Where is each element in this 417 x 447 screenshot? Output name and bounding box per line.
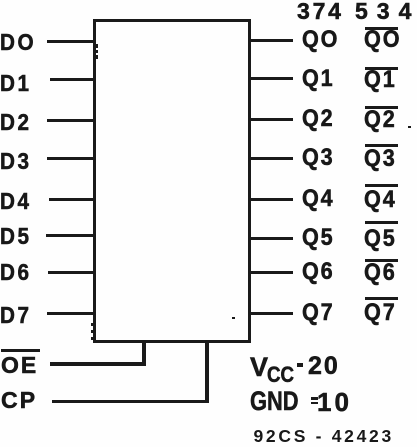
wire Q6 output xyxy=(250,271,293,274)
overline of Q7-bar xyxy=(365,297,398,300)
wire CP vertical riser to IC bottom xyxy=(205,340,209,403)
wire OE vertical riser to IC bottom xyxy=(142,340,146,365)
label Q2 xyxy=(302,107,334,131)
label D0 xyxy=(0,31,36,54)
label Q6-bar xyxy=(364,261,397,285)
label D7 xyxy=(0,304,32,327)
label VCC xyxy=(250,354,268,381)
label Q7-bar xyxy=(364,301,397,325)
wire D6 input xyxy=(48,271,94,274)
value 10 xyxy=(317,389,352,415)
equals sign of GND=10 xyxy=(311,397,318,400)
wire D2 input xyxy=(47,119,94,122)
overline of Q3-bar xyxy=(365,144,398,147)
scan nubs outside IC left edge near bottom corner xyxy=(91,323,93,326)
label D2 xyxy=(0,111,32,134)
wire D1 input xyxy=(50,78,94,81)
label Q3-bar xyxy=(364,147,397,171)
label VCC subscript CC xyxy=(267,364,294,386)
overline of Q1-bar xyxy=(365,67,398,70)
label D1 xyxy=(0,72,32,95)
label D5 xyxy=(0,225,32,248)
label Q1 xyxy=(302,67,334,91)
IC U1 body outline (374/534 octal D-type flip-flop) xyxy=(93,19,251,343)
label Q5 xyxy=(302,226,334,250)
equals sign of VCC=20 xyxy=(297,363,303,368)
label CP (clock) xyxy=(1,389,37,412)
label D4 xyxy=(0,190,32,213)
overline of Q2-bar xyxy=(365,106,398,109)
wire D4 input xyxy=(49,198,94,201)
header 534 xyxy=(355,0,417,23)
label Q0-bar (534 column) xyxy=(364,28,402,52)
wire Q4 output xyxy=(250,198,293,201)
value 20 xyxy=(308,354,340,379)
label 92CS-42423 (drawing number) xyxy=(254,428,394,446)
overline of Q6-bar xyxy=(365,259,398,262)
label GND xyxy=(250,388,299,415)
wire Q3 output xyxy=(250,157,293,160)
overline of Q0-bar xyxy=(365,27,398,30)
label Q2-bar xyxy=(364,108,397,132)
label D6 xyxy=(0,261,32,284)
wire D3 input xyxy=(47,157,94,160)
label Q0 xyxy=(302,28,339,52)
label OE (active-low output enable) xyxy=(1,354,38,377)
label Q3 xyxy=(302,146,334,170)
wire Q2 output xyxy=(250,118,293,121)
wire Q0 output xyxy=(250,39,293,42)
overline of Q4-bar xyxy=(365,184,398,187)
label Q6 xyxy=(302,260,334,284)
wire Q7 output xyxy=(250,312,293,315)
scan nub on IC left edge below D0 pin xyxy=(96,44,98,48)
label Q5-bar xyxy=(364,227,397,251)
wire Q5 output xyxy=(250,237,293,240)
scan dot right of Q2-bar xyxy=(408,126,411,128)
label Q7 xyxy=(302,301,334,325)
overline of OE xyxy=(1,349,40,352)
overline of Q5-bar xyxy=(365,221,398,224)
wire D0 input xyxy=(47,40,94,43)
header 374 xyxy=(297,0,344,23)
scan dot above IC bottom edge xyxy=(232,317,235,319)
wire D5 input xyxy=(46,234,94,237)
wire OE horizontal xyxy=(50,362,146,366)
wire CP horizontal xyxy=(52,400,209,404)
label D3 xyxy=(0,150,32,173)
label Q4 xyxy=(302,187,334,211)
wire Q1 output xyxy=(250,77,293,80)
wire D7 input xyxy=(47,312,94,315)
label Q1-bar xyxy=(364,68,397,92)
label Q4-bar xyxy=(364,188,397,212)
